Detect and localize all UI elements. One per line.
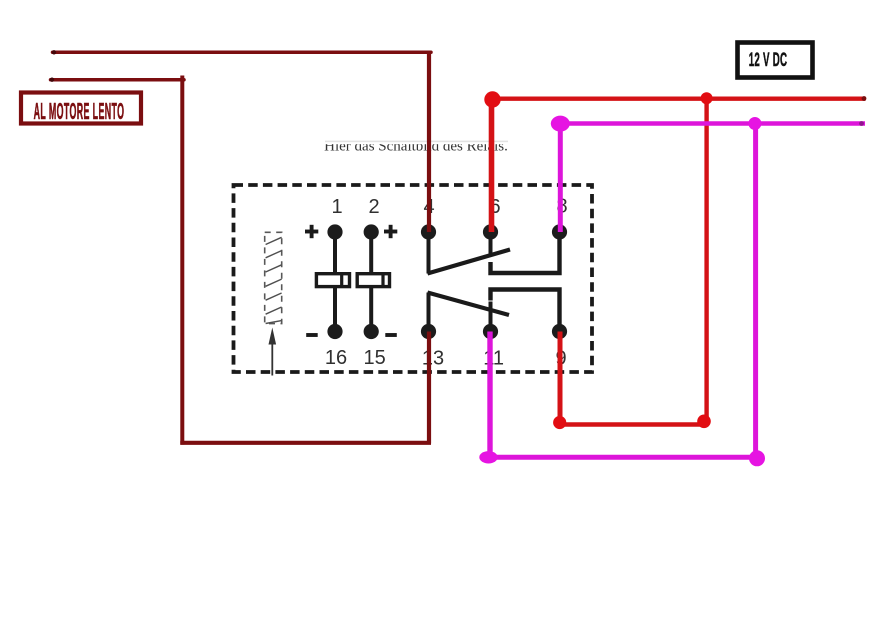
contact set A: pin 6 stub bbox=[489, 232, 493, 255]
wire: maroon feed to pin 13 (top horizontal) bbox=[51, 78, 185, 82]
plus sign at pin 1 bbox=[305, 225, 318, 238]
pin 6 dot bbox=[483, 224, 498, 239]
contact set B: NO contact bracket to pin 9 bbox=[491, 290, 560, 332]
contact set A: pole pin 4 stub bbox=[427, 232, 431, 274]
svg-text:2: 2 bbox=[368, 196, 379, 218]
wire: maroon feed to pin 13 (bottom horizontal) bbox=[180, 441, 431, 445]
armature (hatched plunger) bbox=[265, 232, 282, 323]
contact set B: pin 11 stub bbox=[489, 302, 493, 332]
contact set B: switch arm bbox=[428, 293, 510, 316]
red junction dot bottom left corner bbox=[553, 416, 566, 429]
svg-text:1: 1 bbox=[331, 196, 342, 218]
red junction dot bottom right corner bbox=[697, 415, 711, 429]
plus sign at pin 2 bbox=[384, 225, 397, 238]
svg-text:11: 11 bbox=[483, 348, 504, 370]
wire: maroon feed to pin 4 (horizontal) bbox=[53, 51, 432, 55]
magenta wire end tick bbox=[859, 121, 864, 126]
pin 4 dot bbox=[421, 224, 436, 239]
contact set B: pole pin 13 stub bbox=[427, 293, 431, 332]
wire: red bottom horizontal bbox=[560, 422, 707, 427]
contact set A: switch arm bbox=[428, 250, 511, 274]
svg-text:16: 16 bbox=[325, 347, 347, 369]
wire: magenta pin 11 vertical bbox=[487, 332, 492, 458]
coil L2 (pins 2-15) bbox=[357, 232, 389, 332]
pin 1 dot bbox=[327, 224, 342, 239]
magenta junction dot bottom right corner bbox=[749, 450, 765, 466]
wire: maroon feed to pin 13 (left vertical) bbox=[180, 76, 184, 445]
coil L1 (pins 1-16) bbox=[316, 232, 349, 332]
wire: maroon feed to pin 13 (right vertical up to pin) bbox=[427, 332, 431, 444]
label box AL MOTORE LENTO bbox=[21, 93, 141, 125]
pin 11 dot bbox=[483, 324, 498, 339]
red wire end tick bbox=[862, 96, 867, 101]
contact set A: NO contact bracket to pin 8 bbox=[491, 232, 560, 273]
wire: magenta pin 8 vertical bbox=[558, 124, 563, 233]
wire: red right vertical bbox=[704, 99, 708, 424]
minus sign at pin 15 bbox=[385, 333, 397, 337]
pin 13 dot bbox=[421, 324, 436, 339]
armature arrow bbox=[269, 328, 277, 376]
pin 2 dot bbox=[364, 224, 379, 239]
magenta junction dot bottom left corner bbox=[479, 451, 497, 463]
wire: magenta right vertical bbox=[753, 124, 758, 458]
pin 8 dot bbox=[552, 224, 567, 239]
pin 16 dot bbox=[327, 324, 342, 339]
pin number labels top row bbox=[331, 196, 567, 219]
wire: magenta bottom horizontal bbox=[489, 455, 758, 460]
pin 9 dot bbox=[552, 324, 567, 339]
svg-text:15: 15 bbox=[363, 347, 385, 369]
svg-text:13: 13 bbox=[422, 348, 444, 370]
minus sign at pin 16 bbox=[306, 333, 318, 337]
svg-text:AL MOTORE LENTO: AL MOTORE LENTO bbox=[34, 98, 125, 124]
magenta junction dot top right bbox=[748, 117, 761, 130]
red junction dot at elbow above pin 6 bbox=[484, 91, 500, 107]
pin number labels bottom row bbox=[325, 347, 567, 370]
wire: red top horizontal bbox=[493, 97, 866, 101]
wire: red pin 6 vertical bbox=[489, 100, 495, 233]
label box 12 V DC bbox=[738, 43, 813, 78]
magenta junction dot at elbow above pin 8 bbox=[551, 116, 570, 132]
caption text (partially erased) "Hier das Schaltbild des Relais." bbox=[290, 118, 540, 155]
pin 15 dot bbox=[364, 324, 379, 339]
wire: red pin 9 vertical bbox=[558, 332, 563, 425]
relay outline (dashed box) bbox=[234, 185, 593, 372]
red junction dot top right bbox=[701, 92, 713, 104]
wire: magenta top horizontal bbox=[560, 121, 865, 125]
wire: maroon feed to pin 4 (vertical) bbox=[427, 51, 431, 233]
svg-text:12 V DC: 12 V DC bbox=[749, 50, 788, 72]
